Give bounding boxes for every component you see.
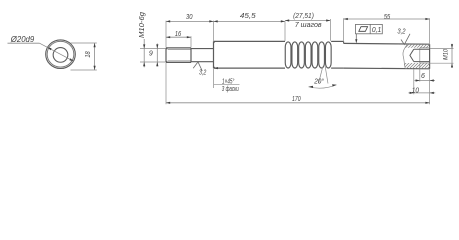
svg-text:30: 30	[186, 12, 193, 21]
circle Ø18	[47, 41, 74, 67]
ext line thread end up	[190, 36, 192, 47]
dim (27,51) line	[285, 20, 330, 22]
outer circle Ø20	[46, 40, 76, 69]
dim 170 line	[166, 102, 430, 104]
angle 20 arc	[309, 85, 337, 88]
dim 6 line	[414, 80, 435, 82]
svg-text:20°: 20°	[313, 77, 324, 86]
svg-text:3,2: 3,2	[199, 70, 206, 77]
shank Ø9 bottom	[191, 61, 214, 63]
tapped hole M10 thread major top	[420, 47, 430, 49]
tapped hole M10 thread major bottom	[420, 62, 430, 64]
bottom line right section	[344, 67, 430, 70]
leader shelf Ø20d9	[8, 42, 40, 44]
step chamfer	[214, 41, 216, 43]
dim 18 extension lines	[71, 42, 97, 44]
ext line flat start up	[343, 18, 345, 41]
ext line left face up	[165, 21, 167, 48]
step to flat	[343, 41, 345, 43]
svg-text:M10: M10	[442, 49, 449, 60]
drill cone	[410, 49, 414, 61]
flatness symbol	[359, 27, 368, 32]
dim M10 hole ext lines	[430, 48, 454, 50]
svg-text:16: 16	[175, 29, 182, 38]
flatness tolerance frame	[356, 24, 383, 33]
drill hole bottom	[414, 61, 430, 63]
flat surface top line	[344, 42, 430, 45]
svg-text:M10-6g: M10-6g	[139, 12, 146, 38]
dim 9 line	[156, 44, 158, 67]
coil 6	[319, 42, 325, 68]
frame leader	[355, 34, 357, 40]
hatching top band	[398, 38, 445, 52]
svg-text:6: 6	[421, 73, 425, 80]
dim 16 line	[166, 36, 191, 38]
broken-out section wavy line	[403, 44, 408, 69]
drill hole top	[414, 48, 430, 50]
svg-text:3,2: 3,2	[397, 29, 405, 36]
shoulder step	[213, 41, 215, 68]
dim M10 hole line	[451, 44, 453, 68]
shank Ø9 top	[191, 48, 214, 50]
chamfer leader 1x45	[213, 68, 215, 88]
svg-text:18: 18	[83, 51, 92, 58]
ext line right face down	[429, 69, 431, 104]
right face	[429, 44, 431, 69]
dim 30 line	[166, 20, 214, 22]
svg-text:10: 10	[412, 87, 419, 94]
thread end line	[190, 48, 192, 63]
dim 10 line	[408, 92, 435, 94]
coil 3	[299, 42, 305, 68]
thread minor bottom	[168, 60, 191, 62]
thread M10 major bottom	[166, 61, 191, 63]
thread minor top	[168, 48, 191, 50]
svg-text:0,1: 0,1	[372, 25, 381, 34]
cylinder Ø18 top	[214, 40, 286, 42]
collar bottom	[331, 67, 344, 69]
svg-text:7 шагов: 7 шагов	[295, 20, 322, 29]
svg-text:3 фаски: 3 фаски	[222, 84, 239, 93]
coil 7	[325, 42, 331, 68]
angle 20 flank lines	[319, 67, 323, 84]
roughness 3,2 on shank	[193, 62, 202, 71]
ext line worm start up	[284, 21, 286, 41]
ext line worm end up	[329, 19, 331, 41]
svg-text:9: 9	[149, 51, 153, 58]
dim 10 ext line	[413, 69, 415, 94]
svg-text:170: 170	[292, 94, 301, 103]
coil 5	[312, 42, 318, 68]
ext line shoulder up	[213, 21, 215, 41]
chamfer shelf	[214, 83, 240, 85]
diameter leader line	[40, 43, 74, 61]
ext line left face down	[165, 63, 167, 104]
circle Ø10 thread end	[53, 48, 68, 63]
left chamfer	[166, 48, 168, 50]
ext line right face up	[429, 18, 431, 43]
svg-text:45,5: 45,5	[240, 11, 257, 20]
svg-text:Ø20d9: Ø20d9	[10, 34, 35, 44]
cylinder Ø18 bottom	[214, 67, 286, 69]
collar top	[331, 40, 344, 42]
coil 4	[305, 42, 311, 68]
roughness 3,2 on flat	[401, 34, 410, 45]
dim 18 dimension line	[94, 43, 96, 70]
dim 55 line	[344, 18, 430, 20]
svg-text:55: 55	[384, 12, 391, 21]
dim M10-6g line	[143, 39, 145, 67]
coil 1	[285, 42, 291, 68]
dim M10-6g extension lines	[140, 48, 166, 50]
dim 45,5 line	[214, 20, 286, 22]
coil 2	[292, 42, 298, 68]
arrowhead lower-right	[69, 58, 73, 61]
hatching bottom band	[394, 54, 451, 72]
thread M10 major top	[166, 47, 191, 49]
arrowhead upper-left	[47, 47, 51, 50]
thread depth line	[419, 48, 421, 63]
dim 6 ext line	[419, 64, 421, 82]
left face	[165, 48, 167, 63]
